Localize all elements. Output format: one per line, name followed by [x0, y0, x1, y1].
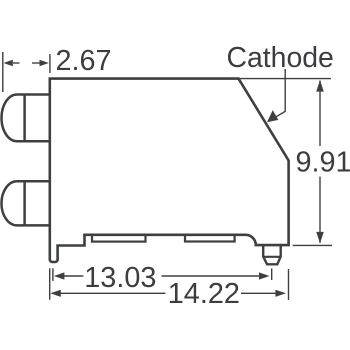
cathode leader line [270, 69, 286, 121]
peg cross line [263, 256, 281, 258]
dim 14.22 extension line right [288, 269, 290, 300]
svg-text:14.22: 14.22 [168, 278, 240, 310]
dim 14.22 right arrow [275, 290, 286, 297]
standoff pad 1 [92, 235, 146, 242]
LED dome 1 (top lens) [1, 95, 50, 142]
dim 9.91 vertical line upper [319, 81, 321, 147]
dim 13.03 right arrow [259, 272, 270, 279]
dim 2.67 left arrow [4, 60, 13, 67]
dim 14.22 line left tail [58, 292, 166, 294]
dim 14.22 extension line left [49, 268, 51, 299]
dim 2.67 right arrow [40, 60, 49, 67]
LED dome 2 (bottom lens) [1, 181, 50, 225]
dim 9.91 vertical line lower [319, 177, 321, 244]
svg-text:9.91: 9.91 [296, 147, 350, 179]
dim 2.67 right extension line [49, 54, 51, 73]
dome 1 flange line [23, 95, 26, 142]
dim 9.91 down arrow [316, 232, 324, 243]
cathode top extension line [239, 78, 331, 80]
svg-text:Cathode: Cathode [227, 42, 334, 74]
dim 14.22 line right tail [241, 292, 279, 294]
dim 13.03 extension line right [271, 269, 273, 281]
dim 13.03 extension line left [52, 268, 54, 281]
dim 2.67 left extension line [2, 52, 4, 92]
cathode leader arrowhead [267, 110, 278, 122]
dim 13.03 left arrow [54, 272, 65, 279]
LED housing body outline [50, 79, 289, 262]
svg-text:2.67: 2.67 [56, 45, 112, 77]
polarizing peg [263, 245, 281, 264]
dim 14.22 left arrow [50, 290, 61, 297]
standoff pad 2 [185, 235, 235, 242]
dim 13.03 line left tail [62, 275, 83, 277]
svg-text:13.03: 13.03 [84, 262, 156, 294]
dim 9.91 up arrow [316, 80, 324, 91]
dim 9.91 bottom extension line [293, 244, 332, 246]
dome 2 flange line [23, 181, 26, 225]
dim 13.03 line right tail [162, 275, 264, 277]
